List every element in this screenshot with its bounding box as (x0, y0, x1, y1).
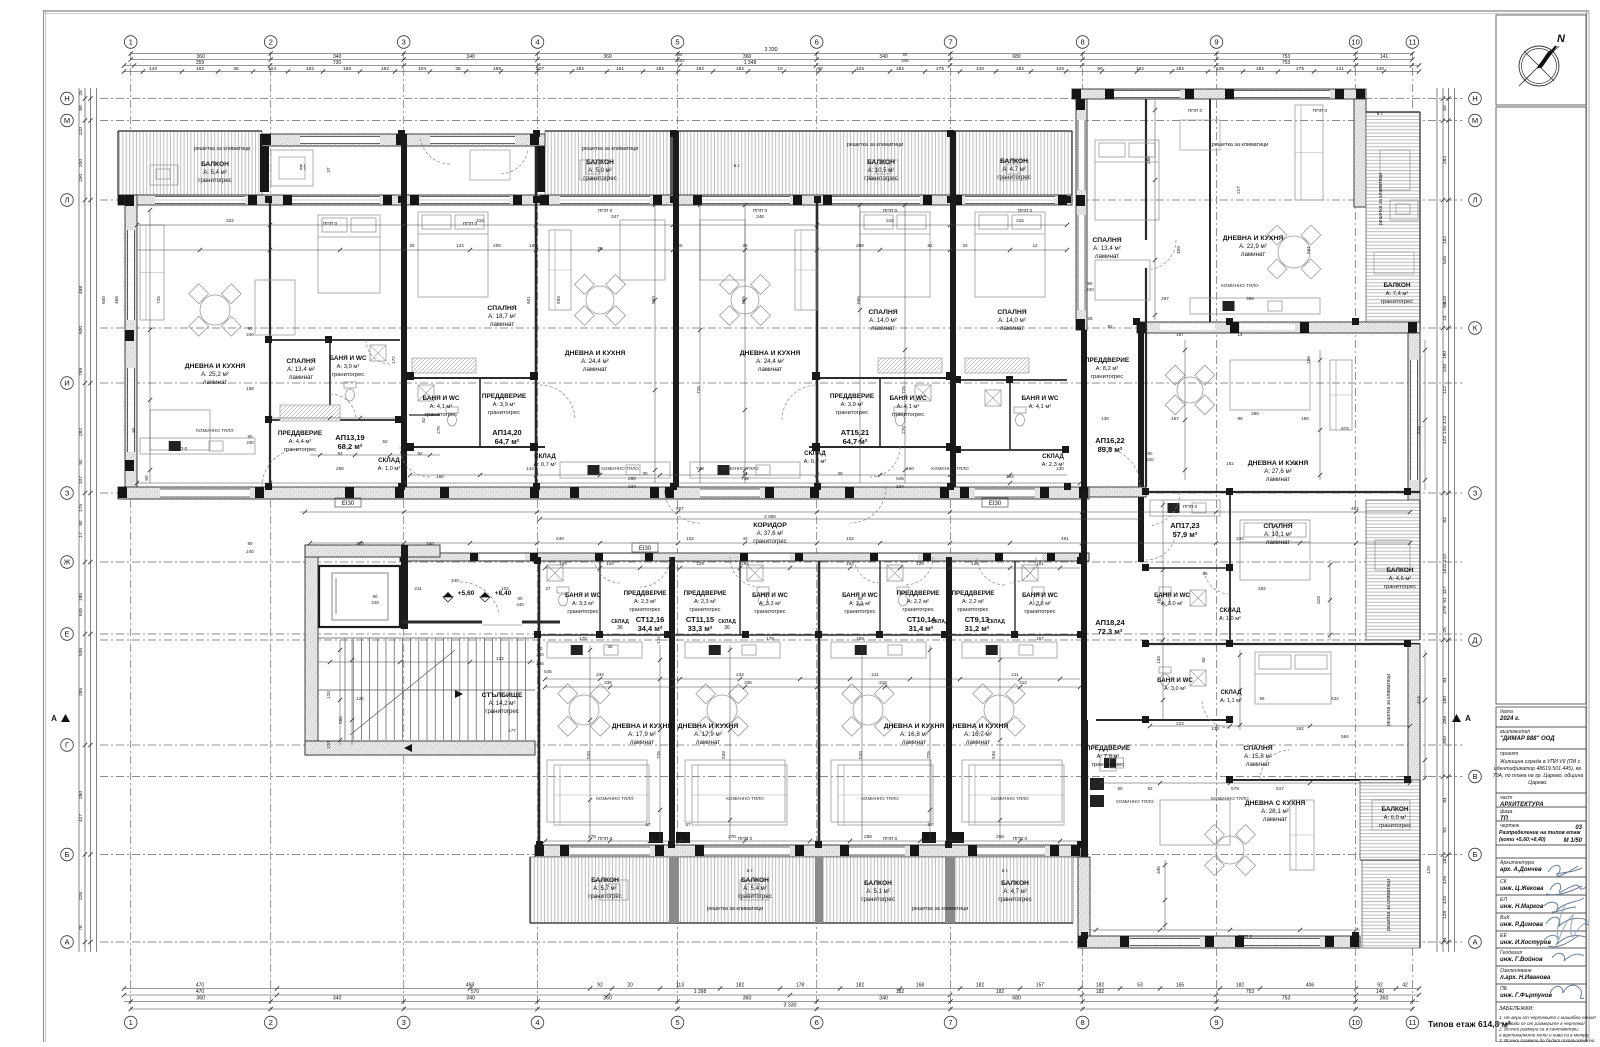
svg-text:340: 340 (879, 54, 888, 60)
svg-text:БАНЯ И WC: БАНЯ И WC (1157, 677, 1193, 684)
svg-text:350: 350 (1442, 736, 1448, 744)
svg-text:482: 482 (1351, 506, 1359, 511)
svg-text:ППП 0: ППП 0 (1013, 836, 1028, 842)
svg-text:223: 223 (1176, 721, 1184, 726)
svg-text:56: 56 (1259, 696, 1265, 701)
svg-text:194: 194 (741, 561, 749, 566)
svg-text:А: 0,7 м²: А: 0,7 м² (804, 459, 827, 465)
svg-text:584: 584 (1341, 734, 1349, 739)
svg-text:645: 645 (78, 608, 84, 616)
svg-text:БАНЯ И WC: БАНЯ И WC (1022, 395, 1059, 402)
svg-text:гранитогрес: гранитогрес (997, 175, 1030, 181)
svg-text:АП16,22: АП16,22 (1095, 436, 1124, 445)
svg-text:дата: дата (1500, 709, 1513, 715)
svg-text:425: 425 (1442, 896, 1448, 904)
svg-text:СПАЛНЯ: СПАЛНЯ (997, 309, 1026, 316)
svg-text:1: 1 (129, 38, 133, 47)
svg-text:57,9 м²: 57,9 м² (1173, 530, 1198, 539)
svg-text:ПРЕДДВЕРИЕ: ПРЕДДВЕРИЕ (830, 393, 875, 400)
svg-text:СТ9,13: СТ9,13 (965, 615, 989, 624)
svg-text:ламинат: ламинат (490, 321, 514, 328)
corridor south wall (400, 553, 1089, 561)
svg-text:240: 240 (516, 602, 524, 607)
svg-text:270: 270 (901, 426, 906, 434)
svg-text:175: 175 (78, 504, 84, 512)
svg-text:ДНЕВНА И КУХНЯ: ДНЕВНА И КУХНЯ (740, 350, 801, 357)
svg-text:3: 3 (402, 1018, 406, 1027)
AP18 block walls (1408, 644, 1420, 780)
svg-text:КОМИННО ТЯЛО: КОМИННО ТЯЛО (1116, 799, 1154, 804)
svg-text:А: 14,0 м²: А: 14,0 м² (998, 317, 1026, 324)
svg-text:144: 144 (526, 466, 534, 471)
svg-text:82: 82 (927, 243, 933, 248)
svg-text:278: 278 (588, 834, 596, 839)
svg-text:458: 458 (466, 983, 475, 989)
svg-text:ДНЕВНА И КУХНЯ: ДНЕВНА И КУХНЯ (565, 350, 626, 357)
svg-text:А: 1,1 м²: А: 1,1 м² (1220, 698, 1242, 704)
svg-text:90: 90 (248, 326, 253, 331)
svg-text:104: 104 (418, 66, 426, 72)
svg-text:гранитогрес: гранитогрес (998, 897, 1031, 903)
svg-text:7: 7 (948, 1018, 952, 1027)
svg-text:ВиК: ВиК (1500, 915, 1510, 921)
svg-text:545: 545 (544, 669, 552, 674)
svg-text:Архитектура: Архитектура (1499, 860, 1534, 866)
svg-text:335: 335 (604, 680, 612, 685)
svg-text:БАЛКОН: БАЛКОН (1000, 158, 1028, 165)
svg-text:82: 82 (1107, 324, 1113, 329)
svg-text:327: 327 (1442, 586, 1448, 594)
svg-text:172: 172 (391, 356, 396, 364)
interior dim lines (137, 224, 1067, 226)
svg-text:А: 13,4 м²: А: 13,4 м² (1093, 245, 1121, 252)
svg-text:ламинат: ламинат (1241, 251, 1265, 258)
svg-text:159: 159 (343, 66, 351, 72)
svg-text:2. Всички размери са в сантим: 2. Всички размери са в сантиметри, (1498, 1027, 1579, 1032)
svg-text:ламинат: ламинат (871, 325, 895, 332)
svg-text:Б: Б (65, 850, 70, 859)
svg-text:в.т.: в.т. (300, 163, 307, 168)
stairwell (305, 545, 318, 755)
svg-text:СПАЛНЯ: СПАЛНЯ (1243, 745, 1272, 752)
svg-text:256: 256 (996, 834, 1004, 839)
svg-text:92: 92 (1147, 786, 1153, 791)
svg-text:256: 256 (336, 466, 344, 471)
svg-text:156: 156 (246, 386, 254, 391)
svg-text:КОМИННО ТЯЛО: КОМИННО ТЯЛО (721, 466, 759, 471)
svg-text:90: 90 (1088, 281, 1093, 286)
svg-text:А: 6,0 м²: А: 6,0 м² (1384, 815, 1407, 821)
svg-text:А: 2,2 м²: А: 2,2 м² (907, 599, 929, 605)
svg-text:А: 2,3 м²: А: 2,3 м² (634, 599, 656, 605)
svg-text:194: 194 (559, 561, 567, 566)
svg-text:124: 124 (456, 243, 464, 248)
svg-text:1 348: 1 348 (744, 60, 757, 66)
svg-text:ЕI30: ЕI30 (989, 501, 1002, 507)
svg-text:154: 154 (1156, 596, 1161, 604)
svg-text:182: 182 (656, 66, 664, 72)
svg-text:СТ11,15: СТ11,15 (686, 615, 714, 624)
svg-text:АП18,24: АП18,24 (1095, 618, 1125, 627)
svg-text:182: 182 (736, 983, 745, 989)
bath walls АП13 (270, 339, 400, 341)
svg-text:211: 211 (1011, 672, 1019, 677)
svg-text:347: 347 (611, 214, 619, 219)
grid bubbles right (1469, 92, 1482, 105)
svg-text:2: 2 (269, 38, 273, 47)
svg-text:182: 182 (1256, 66, 1264, 72)
svg-text:182: 182 (1442, 566, 1448, 574)
svg-text:17: 17 (78, 532, 84, 538)
svg-text:2 210: 2 210 (1442, 554, 1448, 566)
svg-text:335: 335 (744, 680, 752, 685)
svg-text:9: 9 (1214, 1018, 1218, 1027)
svg-text:А: 4,7 м²: А: 4,7 м² (1002, 167, 1025, 173)
svg-text:ПРЕДДВЕРИЕ: ПРЕДДВЕРИЕ (684, 590, 727, 597)
svg-text:181: 181 (1036, 561, 1044, 566)
svg-text:АП17,23: АП17,23 (1170, 521, 1199, 530)
svg-text:10: 10 (1351, 1018, 1359, 1027)
svg-text:42: 42 (1402, 983, 1408, 989)
svg-text:решетка за климатици: решетка за климатици (847, 142, 903, 148)
svg-text:468: 468 (114, 296, 119, 304)
top bedroom exterior wall (262, 134, 545, 146)
svg-text:533: 533 (586, 751, 591, 759)
svg-text:2: 2 (269, 1018, 273, 1027)
svg-text:359: 359 (196, 60, 205, 66)
svg-text:гранитогрес: гранитогрес (284, 447, 316, 453)
svg-text:30: 30 (642, 471, 648, 476)
svg-text:3 330: 3 330 (784, 1003, 797, 1009)
svg-text:ДНЕВНА И КУХНЯ: ДНЕВНА И КУХНЯ (612, 723, 673, 730)
lift shaft (319, 566, 400, 627)
svg-text:36: 36 (607, 644, 613, 649)
svg-text:инж. Г.Фъртунов: инж. Г.Фъртунов (1500, 993, 1552, 999)
svg-text:А: 24,4 м²: А: 24,4 м² (756, 358, 784, 365)
svg-text:+5,60: +5,60 (458, 590, 475, 597)
svg-text:35: 35 (455, 66, 461, 72)
svg-text:3 330: 3 330 (765, 47, 778, 53)
svg-text:182: 182 (856, 983, 865, 989)
svg-text:57: 57 (685, 822, 691, 827)
svg-text:КОМИННО ТЯЛО: КОМИННО ТЯЛО (1221, 283, 1259, 288)
north arrow (1496, 15, 1586, 105)
svg-text:182: 182 (736, 66, 744, 72)
svg-text:25: 25 (1442, 627, 1448, 633)
svg-text:82: 82 (337, 451, 343, 456)
svg-text:А: 3,3 м²: А: 3,3 м² (759, 601, 781, 607)
svg-text:гранитогрес: гранитогрес (485, 709, 518, 715)
svg-text:270: 270 (436, 426, 441, 434)
svg-text:360: 360 (603, 54, 612, 60)
svg-text:АП13,19: АП13,19 (335, 433, 364, 442)
svg-text:3: 3 (402, 38, 406, 47)
svg-text:"ДИМАР 888" ООД: "ДИМАР 888" ООД (1500, 736, 1555, 742)
svg-text:Н: Н (1472, 94, 1477, 103)
svg-text:182: 182 (976, 983, 985, 989)
svg-text:ППП 0: ППП 0 (323, 221, 338, 227)
svg-text:60: 60 (144, 475, 149, 481)
svg-text:461: 461 (1061, 536, 1069, 541)
svg-text:600: 600 (101, 296, 106, 304)
svg-text:8: 8 (1080, 38, 1084, 47)
svg-text:БАЛКОН: БАЛКОН (1381, 806, 1408, 813)
svg-text:в.т.: в.т. (1377, 111, 1384, 116)
svg-text:160: 160 (906, 466, 914, 471)
svg-text:52: 52 (382, 439, 388, 444)
svg-text:М: М (1472, 116, 1478, 125)
svg-text:БАНЯ И WC: БАНЯ И WC (752, 592, 788, 599)
svg-text:гранитогрес: гранитогрес (1092, 762, 1124, 768)
section marker A right (1452, 714, 1461, 722)
grid bubbles bottom (124, 1016, 137, 1029)
svg-text:Разпределение на типов етаж: Разпределение на типов етаж (1499, 830, 1582, 836)
svg-text:240: 240 (1442, 364, 1448, 372)
svg-text:92: 92 (597, 983, 603, 989)
svg-text:А: 3,0 м²: А: 3,0 м² (1164, 686, 1186, 692)
svg-text:33,3 м²: 33,3 м² (688, 624, 713, 633)
svg-text:33: 33 (962, 243, 968, 248)
dim chains left (78, 88, 80, 952)
svg-text:ПБ: ПБ (1500, 986, 1508, 992)
svg-text:СПАЛНЯ: СПАЛНЯ (868, 309, 897, 316)
svg-text:(коти +5,60;+8,40): (коти +5,60;+8,40) (1499, 837, 1546, 843)
svg-text:226: 226 (78, 892, 84, 900)
svg-text:30: 30 (837, 471, 843, 476)
svg-text:гранитогрес: гранитогрес (583, 176, 616, 182)
svg-text:90: 90 (1148, 451, 1153, 456)
svg-text:260: 260 (1146, 156, 1151, 164)
svg-text:решетка за климатици: решетка за климатици (1386, 674, 1392, 726)
door arcs (262, 449, 300, 487)
svg-text:258: 258 (864, 834, 872, 839)
svg-text:СКЛАД: СКЛАД (804, 450, 826, 457)
svg-text:Л: Л (1473, 196, 1478, 205)
svg-text:340: 340 (879, 996, 888, 1002)
svg-text:гранитогрес: гранитогрес (629, 607, 660, 613)
svg-text:60: 60 (1442, 302, 1448, 308)
svg-text:ламинат: ламинат (696, 739, 720, 746)
svg-text:ДНЕВНА И КУХНЯ: ДНЕВНА И КУХНЯ (185, 363, 246, 370)
svg-text:Геодезия: Геодезия (1500, 950, 1522, 956)
svg-text:102: 102 (846, 536, 854, 541)
svg-text:340: 340 (466, 54, 475, 60)
svg-text:Озеленяване: Озеленяване (1500, 968, 1532, 974)
svg-text:Д: Д (1472, 636, 1477, 645)
svg-text:гранитогрес: гранитогрес (754, 609, 785, 615)
svg-text:665: 665 (741, 296, 746, 304)
svg-text:А: 22,9 м²: А: 22,9 м² (1239, 243, 1267, 250)
svg-text:157: 157 (1036, 636, 1044, 641)
svg-text:561: 561 (1306, 246, 1311, 254)
svg-text:БАНЯ И WC: БАНЯ И WC (1022, 592, 1058, 599)
svg-text:ПРЕДДВЕРИЕ: ПРЕДДВЕРИЕ (1086, 745, 1131, 752)
svg-text:СТЪЛБИЩЕ: СТЪЛБИЩЕ (482, 692, 523, 699)
svg-text:25: 25 (677, 243, 683, 248)
svg-text:182: 182 (896, 66, 904, 72)
svg-text:240: 240 (536, 652, 544, 657)
svg-text:533: 533 (858, 751, 863, 759)
grid axes vertical (130, 52, 132, 1012)
svg-text:725: 725 (926, 751, 931, 759)
svg-text:234: 234 (896, 484, 904, 489)
svg-text:7: 7 (948, 38, 952, 47)
svg-text:ДНЕВНА С КУХНЯ: ДНЕВНА С КУХНЯ (1245, 800, 1306, 807)
west exterior wall (125, 195, 137, 499)
dim chains bottom (124, 988, 1419, 990)
svg-text:110: 110 (78, 127, 84, 135)
svg-text:348: 348 (756, 214, 764, 219)
svg-text:31,2 м²: 31,2 м² (965, 624, 990, 633)
svg-text:99: 99 (1237, 416, 1243, 421)
svg-text:4: 4 (535, 1018, 539, 1027)
svg-text:177: 177 (508, 728, 516, 733)
svg-text:СКЛАД: СКЛАД (987, 619, 1005, 625)
svg-text:414: 414 (1416, 696, 1421, 704)
right block east wall (1408, 333, 1420, 500)
svg-text:175: 175 (1296, 66, 1304, 72)
svg-text:80: 80 (1201, 657, 1206, 663)
svg-text:чертеж: чертеж (1500, 823, 1520, 829)
svg-text:А: 7,4 м²: А: 7,4 м² (1386, 291, 1409, 297)
svg-text:гранитогрес: гранитогрес (198, 178, 231, 184)
svg-text:А: А (51, 714, 57, 723)
svg-text:182: 182 (576, 66, 584, 72)
svg-text:ППП 0: ППП 0 (1018, 208, 1033, 214)
svg-text:гранитогрес: гранитогрес (1091, 374, 1123, 380)
svg-text:674: 674 (1341, 426, 1349, 431)
svg-text:ПРЕДДВЕРИЕ: ПРЕДДВЕРИЕ (278, 430, 323, 437)
chimney blocks (649, 832, 663, 843)
svg-text:227: 227 (1236, 186, 1241, 194)
svg-text:СКЛАД: СКЛАД (1220, 690, 1242, 696)
svg-text:гранитогрес: гранитогрес (567, 609, 598, 615)
extra door arcs (664, 487, 700, 523)
svg-text:фаза: фаза (1500, 809, 1512, 815)
svg-text:гранитогрес: гранитогрес (864, 176, 897, 182)
svg-text:92: 92 (417, 451, 423, 456)
svg-text:ламинат: ламинат (289, 374, 313, 381)
svg-text:665: 665 (856, 296, 861, 304)
svg-text:решетка за климатици: решетка за климатици (707, 906, 763, 912)
svg-text:234: 234 (1236, 536, 1244, 541)
svg-text:129: 129 (696, 561, 704, 566)
svg-text:Л: Л (65, 196, 70, 205)
svg-text:А: 10,5 м²: А: 10,5 м² (868, 168, 895, 174)
svg-text:З: З (1473, 489, 1478, 498)
svg-text:102: 102 (686, 536, 694, 541)
svg-text:гранитогрес: гранитогрес (1379, 823, 1411, 829)
svg-text:316: 316 (476, 218, 484, 223)
svg-text:А: 2,2 м²: А: 2,2 м² (962, 599, 984, 605)
svg-text:422: 422 (1442, 436, 1448, 444)
svg-text:А: 17,9 м²: А: 17,9 м² (694, 731, 722, 738)
svg-text:ДНЕВНА И КУХНЯ: ДНЕВНА И КУХНЯ (1223, 235, 1284, 242)
svg-text:гранитогрес: гранитогрес (957, 607, 988, 613)
svg-text:А: 4,1 м²: А: 4,1 м² (897, 404, 920, 410)
svg-text:57: 57 (927, 822, 933, 827)
svg-text:340: 340 (426, 541, 434, 546)
svg-text:125: 125 (1056, 66, 1064, 72)
svg-text:ламинат: ламинат (758, 366, 782, 373)
svg-text:ламинат: ламинат (1266, 476, 1290, 483)
svg-text:360: 360 (743, 996, 752, 1002)
svg-text:753: 753 (1282, 996, 1291, 1002)
svg-text:А: 14,0 м²: А: 14,0 м² (869, 317, 897, 324)
svg-text:ДНЕВНА И КУХНЯ: ДНЕВНА И КУХНЯ (948, 723, 1009, 730)
svg-text:БАЛКОН: БАЛКОН (864, 880, 892, 887)
svg-text:25: 25 (78, 90, 84, 96)
svg-text:28: 28 (1087, 316, 1093, 321)
svg-text:316: 316 (886, 218, 894, 223)
svg-text:182: 182 (1176, 66, 1184, 72)
svg-text:ППП 0: ППП 0 (1188, 108, 1203, 114)
svg-text:78: 78 (78, 925, 84, 931)
svg-text:ДНЕВНА И КУХНЯ: ДНЕВНА И КУХНЯ (678, 723, 739, 730)
svg-text:ламинат: ламинат (1263, 816, 1287, 823)
svg-text:решетка за климатици: решетка за климатици (1386, 879, 1392, 931)
svg-text:А: 16,7 м²: А: 16,7 м² (964, 731, 992, 738)
svg-text:СКЛАД: СКЛАД (1219, 608, 1241, 614)
svg-text:182: 182 (1136, 66, 1144, 72)
svg-text:92: 92 (78, 520, 84, 526)
svg-text:92: 92 (1292, 461, 1298, 466)
door posts (406, 372, 414, 380)
svg-text:КОМИННО ТЯЛО: КОМИННО ТЯЛО (196, 428, 234, 433)
svg-text:БАЛКОН: БАЛКОН (1001, 880, 1029, 887)
svg-text:ДНЕВНА И КУХНЯ: ДНЕВНА И КУХНЯ (884, 723, 945, 730)
svg-text:579: 579 (1231, 786, 1239, 791)
grid bubbles top (124, 36, 137, 49)
svg-text:ППП 0: ППП 0 (883, 836, 898, 842)
svg-text:113: 113 (676, 983, 684, 989)
svg-text:145: 145 (1442, 426, 1448, 434)
svg-text:144: 144 (1006, 474, 1014, 479)
svg-text:АП14,20: АП14,20 (492, 428, 521, 437)
svg-text:593: 593 (651, 296, 656, 304)
bath walls АП14 (409, 377, 536, 379)
svg-text:решетка за климатици: решетка за климатици (582, 146, 638, 152)
svg-text:122: 122 (1442, 386, 1448, 394)
svg-text:120: 120 (916, 561, 924, 566)
svg-text:Типов етаж: Типов етаж (1428, 1019, 1477, 1029)
svg-text:90: 90 (538, 646, 543, 651)
svg-text:БАЛКОН: БАЛКОН (201, 161, 229, 168)
svg-text:593: 593 (556, 296, 561, 304)
svg-text:А: 5,1 м²: А: 5,1 м² (866, 889, 889, 895)
svg-text:282: 282 (1258, 586, 1266, 591)
svg-text:8: 8 (1080, 1018, 1084, 1027)
svg-text:Б: Б (1473, 850, 1478, 859)
svg-text:гранитогрес: гранитогрес (753, 539, 786, 545)
svg-text:315: 315 (1016, 218, 1024, 223)
svg-text:207: 207 (536, 66, 544, 72)
svg-text:ЕI30: ЕI30 (342, 501, 355, 507)
svg-text:200: 200 (78, 159, 84, 167)
svg-text:170: 170 (766, 636, 774, 641)
svg-text:107: 107 (78, 476, 84, 484)
svg-text:324: 324 (1316, 596, 1321, 604)
svg-text:60: 60 (595, 471, 601, 476)
svg-text:25: 25 (597, 246, 603, 251)
svg-text:159: 159 (856, 636, 864, 641)
svg-text:27: 27 (545, 586, 551, 591)
svg-text:398: 398 (1442, 716, 1448, 724)
svg-text:130: 130 (1056, 466, 1064, 471)
svg-text:315: 315 (879, 680, 887, 685)
svg-text:182: 182 (1096, 989, 1105, 995)
east balcony АП17 (7,4) (1366, 112, 1420, 330)
